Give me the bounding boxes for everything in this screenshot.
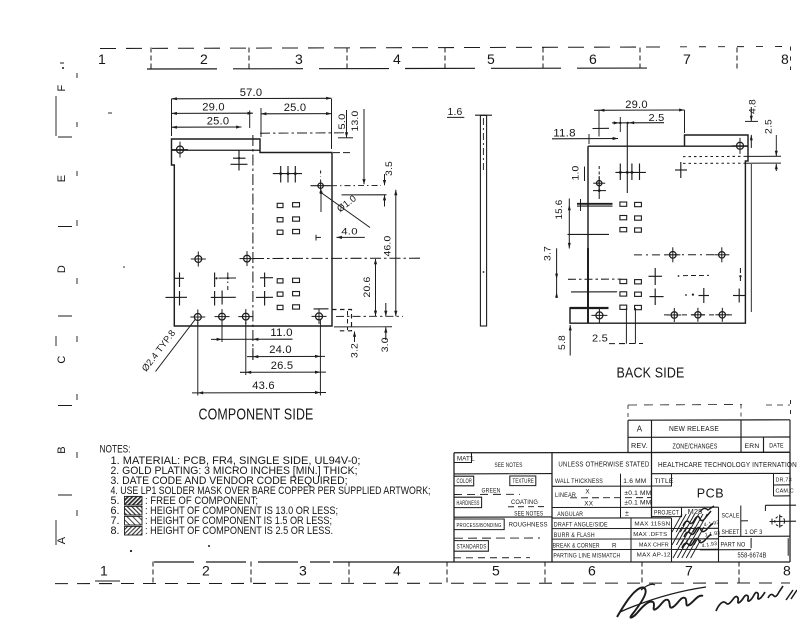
dim 15.6 (back) (554, 199, 581, 249)
hatch swatch note 8 (125, 526, 143, 535)
dim 11.0 (211, 327, 293, 341)
svg-text:UNLESS OTHERWISE STATED: UNLESS OTHERWISE STATED (558, 460, 649, 469)
svg-text:SHEET: SHEET (722, 529, 740, 536)
svg-text:5.0: 5.0 (337, 114, 348, 130)
svg-text:3.0: 3.0 (380, 337, 391, 352)
svg-text:1 OF 3: 1 OF 3 (745, 529, 763, 536)
dim 29.0 (172, 102, 253, 128)
cross above bottom-right hole (314, 308, 329, 310)
hatch swatch note 7 (125, 516, 143, 525)
svg-text:NOTES:: NOTES: (100, 443, 131, 455)
svg-text:C: C (56, 355, 68, 363)
vertical centerline (252, 135, 254, 360)
svg-text:5: 5 (492, 563, 500, 579)
svg-text:BURR & FLASH: BURR & FLASH (554, 532, 595, 539)
svg-text:1: 1 (100, 563, 108, 579)
svg-text:PROCESS/BONDING: PROCESS/BONDING (457, 523, 502, 529)
dim 20.6 (362, 259, 377, 316)
svg-text:COMPONENT SIDE: COMPONENT SIDE (199, 407, 314, 424)
svg-text:±0.1 MM: ±0.1 MM (624, 490, 651, 497)
dim 3.2 (350, 331, 361, 358)
dim 5.8 (back) (557, 325, 572, 356)
second connector mark (back) (675, 162, 687, 178)
svg-text:6: 6 (589, 51, 597, 67)
svg-text:13.0: 13.0 (350, 111, 361, 132)
component crosses (back) (649, 268, 746, 305)
svg-text:HEALTHCARE TECHNOLOGY INTERNAT: HEALTHCARE TECHNOLOGY INTERNATIONAL (658, 460, 797, 469)
mount hole bottom right (312, 309, 327, 324)
title block left section (454, 453, 552, 558)
title block company/title section (652, 460, 797, 562)
mid hole back 1 (665, 247, 680, 262)
dim 25.0 left (172, 116, 242, 129)
notes text block (100, 443, 431, 537)
dim 3.0 (334, 303, 392, 352)
svg-text:ROUGHNESS: ROUGHNESS (509, 522, 548, 529)
svg-text:±: ± (625, 510, 629, 517)
board outline (component side) (172, 139, 333, 326)
svg-text:DR.73: DR.73 (776, 478, 792, 484)
leader dia 1.0 (320, 190, 371, 228)
svg-text:1.0: 1.0 (571, 166, 582, 181)
dim 11.8 (back) (552, 128, 618, 144)
svg-text:57.0: 57.0 (240, 87, 263, 99)
svg-text:3.7: 3.7 (543, 246, 554, 261)
pad group lower (back) (620, 279, 641, 309)
board side profile view (447, 107, 492, 326)
title block (454, 452, 797, 562)
svg-text:NEW RELEASE: NEW RELEASE (669, 424, 719, 433)
svg-text:REV.: REV. (631, 441, 648, 450)
dim 2.5 (back top) (612, 112, 665, 132)
svg-text:ANGULAR: ANGULAR (557, 511, 583, 518)
svg-text:PARTING LINE MISMATCH: PARTING LINE MISMATCH (553, 552, 620, 559)
mount hole mid-left (191, 252, 206, 267)
dim 4.8 (back) (745, 99, 759, 148)
svg-text:5.8: 5.8 (557, 335, 568, 350)
mount hole bottom 3 (238, 309, 253, 324)
svg-text:7: 7 (683, 51, 691, 67)
connector mark near tab (231, 151, 248, 171)
svg-text:D: D (56, 265, 68, 273)
pad group upper (277, 203, 299, 235)
svg-text:29.0: 29.0 (202, 102, 225, 114)
svg-text:2.5: 2.5 (764, 119, 775, 134)
svg-text:BREAK & CORNER: BREAK & CORNER (553, 543, 600, 550)
svg-text:COATING: COATING (511, 499, 538, 506)
pad group lower (277, 278, 299, 309)
svg-text:7: 7 (685, 563, 693, 579)
svg-text:8.: 8. (111, 525, 120, 537)
svg-text:2.5: 2.5 (649, 112, 665, 124)
svg-text:WALL THICKNESS: WALL THICKNESS (555, 478, 603, 485)
svg-text:3.5: 3.5 (384, 161, 395, 176)
back side view (543, 99, 782, 382)
svg-text:PROJECT: PROJECT (654, 509, 679, 516)
svg-text:PCB: PCB (697, 487, 725, 501)
dim 43.6 (192, 380, 326, 394)
small hole dia 1.0 (311, 171, 331, 192)
svg-text:4.0: 4.0 (341, 227, 358, 238)
svg-text:6: 6 (588, 563, 596, 579)
board outline (back side) (570, 135, 748, 323)
svg-text:XX: XX (584, 500, 593, 507)
scan specks (60, 63, 210, 581)
svg-text:29.0: 29.0 (625, 99, 648, 111)
svg-text:5: 5 (487, 51, 495, 67)
svg-text:3.2: 3.2 (350, 343, 361, 358)
svg-text:: HEIGHT OF COMPONENT IS 2.5 O: : HEIGHT OF COMPONENT IS 2.5 OR LESS. (145, 525, 333, 537)
svg-text:A: A (56, 536, 68, 544)
svg-text:COLOR: COLOR (457, 479, 473, 485)
tab mount hole (back) (732, 138, 748, 154)
horizontal centerline to right (253, 257, 420, 259)
svg-text:25.0: 25.0 (207, 116, 230, 128)
title block right column boxes (774, 474, 794, 497)
right long extension line (750, 164, 752, 312)
tab bottom edge line (172, 149, 261, 151)
dim 1.0 (back) (571, 166, 585, 182)
svg-text:ERN: ERN (745, 443, 760, 450)
faint lines above revision table (628, 404, 742, 407)
center vertical line (back) (626, 123, 628, 194)
svg-text:558-6674B: 558-6674B (738, 551, 767, 560)
small hole (back) (593, 166, 606, 199)
third angle projection symbol (765, 505, 796, 527)
svg-text:4: 4 (393, 51, 401, 67)
svg-text:DRAFT ANGLE/SIDE: DRAFT ANGLE/SIDE (554, 521, 608, 528)
svg-text:TEXTURE: TEXTURE (513, 479, 535, 485)
component cross marks lower-left (166, 273, 329, 309)
svg-text:LINEAR: LINEAR (555, 492, 576, 499)
3-pin connector mark (273, 166, 302, 183)
svg-text:4: 4 (393, 563, 401, 579)
svg-text:MAT'L: MAT'L (457, 455, 475, 462)
dim 4.0 (316, 227, 365, 241)
handwritten signature bottom right (617, 584, 797, 617)
dim 3.7 (back) (543, 246, 559, 298)
svg-text:2: 2 (202, 563, 210, 579)
svg-text:TITLE: TITLE (655, 478, 674, 485)
dim 46.0 (336, 190, 403, 317)
svg-text:3: 3 (299, 563, 307, 579)
svg-text:24.0: 24.0 (269, 344, 292, 356)
hidden lines dotted in tab (683, 155, 746, 157)
zone boundary ticks (58, 48, 739, 585)
svg-text:A: A (637, 425, 643, 434)
svg-text:BACK SIDE: BACK SIDE (617, 366, 685, 382)
svg-text:26.5: 26.5 (271, 360, 294, 372)
mount hole mid-center (240, 251, 255, 266)
heavy step edge bottom-left (570, 307, 609, 309)
svg-text:11.0: 11.0 (270, 327, 293, 339)
svg-text:E: E (56, 175, 68, 183)
svg-text:HARDNESS: HARDNESS (457, 501, 480, 507)
svg-text:±0.1 MM: ±0.1 MM (624, 499, 651, 506)
svg-text:X: X (585, 489, 590, 496)
svg-text:STANDARDS: STANDARDS (457, 544, 487, 551)
svg-text:46.0: 46.0 (382, 236, 393, 257)
svg-text:15.6: 15.6 (554, 200, 565, 220)
svg-text:1.6: 1.6 (448, 107, 463, 118)
bottom extension lines (198, 320, 321, 396)
mount hole top-left (172, 142, 188, 158)
zone labels (56, 51, 791, 579)
svg-text:4.8: 4.8 (748, 99, 759, 114)
svg-text:MAX .DFTS: MAX .DFTS (633, 532, 667, 538)
dim 1.6 thickness (447, 107, 464, 118)
leader dia 2.4 typ 8 (140, 319, 196, 373)
dim 2.5 (back right) (764, 119, 778, 171)
component side view (140, 87, 420, 424)
svg-text:SEE NOTES: SEE NOTES (495, 462, 523, 469)
svg-text:GREEN: GREEN (482, 487, 501, 494)
svg-text:MAX CHFR: MAX CHFR (639, 543, 669, 549)
tab top extension dash-dot (260, 132, 346, 134)
dim 3.5 (331, 161, 395, 207)
svg-text:MAX 115SN: MAX 115SN (634, 522, 670, 528)
svg-text:R: R (612, 542, 617, 549)
feature lines (back) (568, 128, 715, 292)
svg-text:1: 1 (98, 51, 106, 67)
svg-text:F: F (56, 84, 68, 91)
svg-text:B: B (56, 446, 68, 454)
svg-text:11.8: 11.8 (553, 128, 576, 140)
svg-text:43.6: 43.6 (252, 380, 275, 392)
svg-text:PART NO: PART NO (721, 542, 746, 549)
svg-text:8: 8 (781, 51, 789, 67)
svg-text:2.5: 2.5 (592, 333, 608, 345)
revision table (628, 405, 790, 453)
svg-text:25.0: 25.0 (284, 102, 307, 114)
dim 24.0 (247, 344, 325, 358)
mid hole back 2 (714, 247, 729, 262)
svg-text:MAX AP-12: MAX AP-12 (637, 553, 671, 559)
svg-text:2: 2 (200, 51, 208, 67)
svg-text:CAM.C: CAM.C (776, 489, 794, 495)
edge extension right of board (333, 152, 352, 154)
bottom holes back (591, 307, 732, 323)
hatch swatch note 6 (125, 506, 143, 515)
dim 57.0 top (172, 87, 332, 149)
title block tolerance section (552, 460, 672, 563)
approval signature area with hatching (672, 506, 721, 562)
hatch swatch note 5 (125, 496, 143, 505)
mount hole bottom 1 (190, 310, 205, 325)
extension of hidden lines (746, 155, 781, 157)
svg-text:DATE: DATE (769, 443, 784, 450)
connector mark (back) (615, 164, 646, 181)
hidden tab outline dashed (bottom right) (332, 310, 352, 331)
dim 2.5 (back bottom) (592, 308, 643, 345)
svg-text:20.6: 20.6 (362, 277, 373, 298)
mount hole bottom 2 (215, 309, 230, 324)
dim 26.5 (240, 360, 326, 374)
heavy left edge overlay (587, 248, 589, 323)
svg-text:3: 3 (295, 51, 303, 67)
dim 13.0 (350, 109, 365, 185)
pad group upper (back) (620, 202, 641, 232)
dim 5.0 (337, 110, 353, 138)
dim 29.0 (back) (594, 99, 685, 137)
svg-text:8: 8 (783, 563, 791, 579)
dim 25.0 right (261, 102, 332, 137)
svg-text:SCALE: SCALE (722, 513, 740, 520)
svg-text:1.6 MM: 1.6 MM (623, 478, 646, 485)
svg-text:ZONE/CHANGES: ZONE/CHANGES (673, 441, 718, 450)
